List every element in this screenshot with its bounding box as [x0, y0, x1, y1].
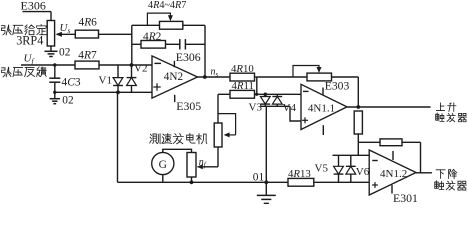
svg-text:4R7: 4R7 — [78, 49, 97, 61]
svg-text:V3: V3 — [249, 102, 263, 114]
svg-text:4N1.1: 4N1.1 — [308, 102, 335, 114]
svg-text:V5: V5 — [315, 163, 329, 175]
svg-text:V6: V6 — [356, 166, 370, 178]
svg-text:4C3: 4C3 — [62, 77, 81, 89]
svg-text:3RP4: 3RP4 — [16, 34, 43, 48]
svg-text:E305: E305 — [176, 99, 201, 113]
svg-text:V2: V2 — [134, 63, 147, 75]
svg-text:02: 02 — [59, 46, 71, 58]
svg-text:V1: V1 — [99, 74, 112, 86]
svg-text:4N2: 4N2 — [164, 71, 183, 83]
svg-text:4R4~4R7: 4R4~4R7 — [148, 0, 186, 11]
svg-text:G: G — [159, 159, 167, 171]
svg-text:E306: E306 — [176, 50, 201, 64]
svg-text:02: 02 — [62, 94, 74, 106]
svg-text:4R6: 4R6 — [79, 17, 98, 29]
svg-text:E301: E301 — [393, 191, 418, 204]
svg-text:01: 01 — [253, 171, 265, 183]
svg-text:4N1.2: 4N1.2 — [380, 168, 407, 180]
svg-text:E306: E306 — [21, 0, 46, 13]
